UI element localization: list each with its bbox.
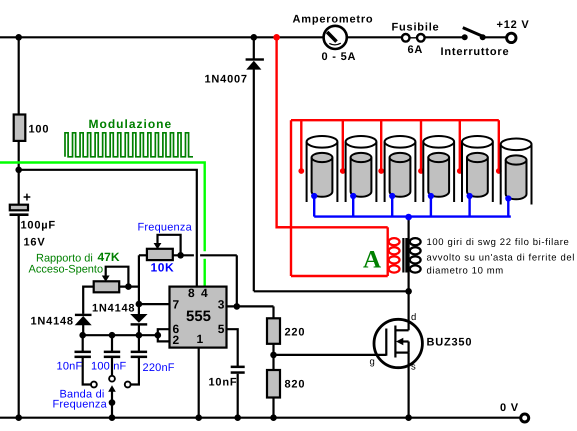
wire left vertical upper [18, 37, 20, 115]
resistor R 100 [14, 115, 26, 141]
svg-text:10K: 10K [151, 261, 175, 275]
wire red rect top [277, 226, 388, 228]
wire pin1 to 0V [198, 348, 200, 418]
node 47K wiper junction [125, 283, 132, 290]
wire green net lower segment [203, 259, 205, 287]
waveform modulation square wave [65, 133, 193, 157]
svg-text:1N4007: 1N4007 [205, 74, 248, 86]
svg-text:Amperometro: Amperometro [293, 14, 374, 26]
node pin3 junction [234, 303, 241, 310]
wire fuse internal [401, 37, 426, 39]
svg-text:s: s [411, 362, 416, 373]
potentiometer P2 47K [94, 267, 129, 293]
node pot right junction [177, 252, 184, 259]
svg-text:220: 220 [285, 327, 306, 339]
svg-text:100 nF: 100 nF [91, 361, 127, 373]
wire drain vertical [408, 217, 410, 330]
svg-text:Interruttore: Interruttore [441, 46, 510, 58]
svg-text:47K: 47K [98, 250, 120, 264]
node rail dot 6 [405, 414, 412, 421]
wire source vertical [408, 353, 410, 418]
wire green net left (to reset pin4) [0, 163, 205, 252]
fuse F1 6A [402, 34, 425, 42]
svg-text:+12 V: +12 V [497, 19, 530, 31]
coil L5 [457, 120, 493, 216]
capacitor C4 10nF [231, 366, 245, 418]
wire down to R220 [272, 306, 274, 318]
svg-text:g: g [370, 357, 375, 368]
wire pin3 node [227, 305, 274, 307]
wire top +12V rail left segment [0, 36, 323, 38]
wire 10K left leg down [138, 255, 140, 314]
node rail dot b [109, 332, 116, 339]
node junction 1N4007 top [251, 34, 258, 41]
svg-text:Modulazione: Modulazione [89, 117, 173, 131]
wire timing rail [83, 334, 158, 336]
wire down to pin3 node [236, 255, 238, 306]
svg-text:avvolto su un'asta di ferrite: avvolto su un'asta di ferrite del [427, 252, 575, 263]
wire switch to +12V terminal [483, 36, 507, 38]
terminal 0V [521, 414, 529, 422]
svg-text:10nF: 10nF [57, 361, 83, 373]
wire red left edge down [290, 120, 292, 276]
wire gate [274, 354, 387, 356]
transistor Q1 BUZ350 [374, 319, 422, 367]
IC U1 555 [170, 286, 227, 348]
svg-text:1N4148: 1N4148 [31, 316, 74, 328]
node rail dot 3 [195, 414, 202, 421]
wire cap to 0V rail [18, 216, 20, 418]
resistor R1 220 [267, 318, 280, 344]
node gate junction [270, 352, 277, 359]
node rail dot a [79, 332, 86, 339]
svg-text:7: 7 [173, 298, 180, 312]
wire red +12V feed down [277, 37, 291, 227]
node rail dot c [136, 332, 143, 339]
svg-text:820: 820 [285, 379, 306, 391]
wire pin5 to cap [227, 329, 238, 366]
wire fuse to switch [425, 36, 464, 38]
diode D3 1N4148 middle (cathode down) [130, 314, 147, 335]
svg-text:6A: 6A [408, 44, 424, 56]
node junction at cap top [15, 167, 22, 174]
wire 47K left leg [83, 287, 94, 314]
svg-text:2: 2 [173, 333, 180, 347]
svg-text:3: 3 [218, 298, 225, 312]
svg-text:5: 5 [218, 322, 225, 336]
node pin2 junction [155, 332, 162, 339]
wire resistor to cap [18, 141, 20, 205]
diode D2 1N4148 left (cathode up) [75, 314, 92, 336]
svg-text:Frequenza: Frequenza [138, 222, 193, 234]
wire R220 to R820 [272, 344, 274, 370]
capacitor C 100uF polarized [10, 190, 32, 217]
svg-text:Acceso-Spento: Acceso-Spento [29, 264, 104, 276]
svg-text:100 giri di swg 22 filo bi-fil: 100 giri di swg 22 filo bi-filare [427, 237, 570, 248]
svg-text:8: 8 [188, 286, 195, 300]
wire R820 to 0V [272, 398, 274, 418]
svg-text:Frequenza: Frequenza [53, 399, 108, 411]
wire pin6/pin2 bracket [158, 329, 170, 341]
svg-text:BUZ350: BUZ350 [427, 337, 473, 349]
wire red coil bus [291, 119, 499, 121]
svg-text:555: 555 [186, 308, 211, 325]
svg-text:A: A [363, 247, 381, 274]
svg-text:1: 1 [197, 332, 204, 346]
svg-text:+: + [23, 190, 31, 205]
coil L3 [378, 120, 415, 216]
wire red rect right [387, 227, 389, 276]
diode D1 1N4007 [246, 37, 264, 291]
svg-text:100µF: 100µF [21, 220, 56, 232]
wire pin7 stub [139, 303, 170, 305]
svg-text:d: d [411, 312, 416, 323]
svg-text:1N4148: 1N4148 [92, 303, 135, 315]
svg-text:diametro 10 mm: diametro 10 mm [427, 266, 504, 277]
wire meter to fuse [348, 36, 402, 38]
node rail dot 2 [109, 414, 116, 421]
selector arrow band switch [108, 385, 116, 417]
node drain junction [405, 288, 412, 295]
inductor L-primary red winding [389, 238, 400, 273]
node pin7 junction [136, 301, 143, 308]
svg-text:0 V: 0 V [500, 402, 519, 414]
wire horizontal to pin8 [19, 170, 197, 287]
wire pot row horizontal [139, 254, 147, 256]
svg-text:220nF: 220nF [143, 362, 175, 374]
switch S1 Interruttore [462, 28, 486, 41]
wire red rect bottom [291, 275, 388, 277]
ammeter M1 [324, 26, 347, 49]
node rail dot 1 [15, 414, 22, 421]
coil L1 [298, 120, 337, 216]
coil L6 [496, 120, 532, 216]
svg-text:10nF: 10nF [209, 377, 238, 389]
svg-text:Fusibile: Fusibile [392, 22, 440, 34]
inductor L-secondary black winding [410, 238, 421, 273]
node red tap on +12V rail [273, 34, 280, 41]
node junction top-left [15, 34, 22, 41]
potentiometer P1 10K [147, 235, 181, 260]
coil L4 [418, 120, 454, 216]
node blue junction [405, 214, 412, 221]
capacitor C1 10nF [75, 335, 97, 387]
resistor R2 820 [267, 370, 280, 398]
capacitor C2 100nF [104, 335, 120, 381]
wire blue bus [314, 215, 511, 217]
svg-text:0 - 5A: 0 - 5A [322, 51, 357, 63]
svg-text:4: 4 [201, 286, 208, 300]
svg-text:16V: 16V [24, 237, 46, 249]
wire 1N4007 to drain node [254, 290, 409, 292]
capacitor C3 220nF [125, 335, 147, 387]
terminal +12V [507, 33, 516, 42]
wire 0V rail [0, 417, 520, 419]
svg-text:100: 100 [29, 124, 50, 136]
node rail dot 4 [234, 414, 241, 421]
core ferrite bars [402, 238, 404, 273]
node rail dot 5 [270, 414, 277, 421]
coil L2 [340, 120, 377, 216]
wire 47K right to node [119, 286, 139, 288]
